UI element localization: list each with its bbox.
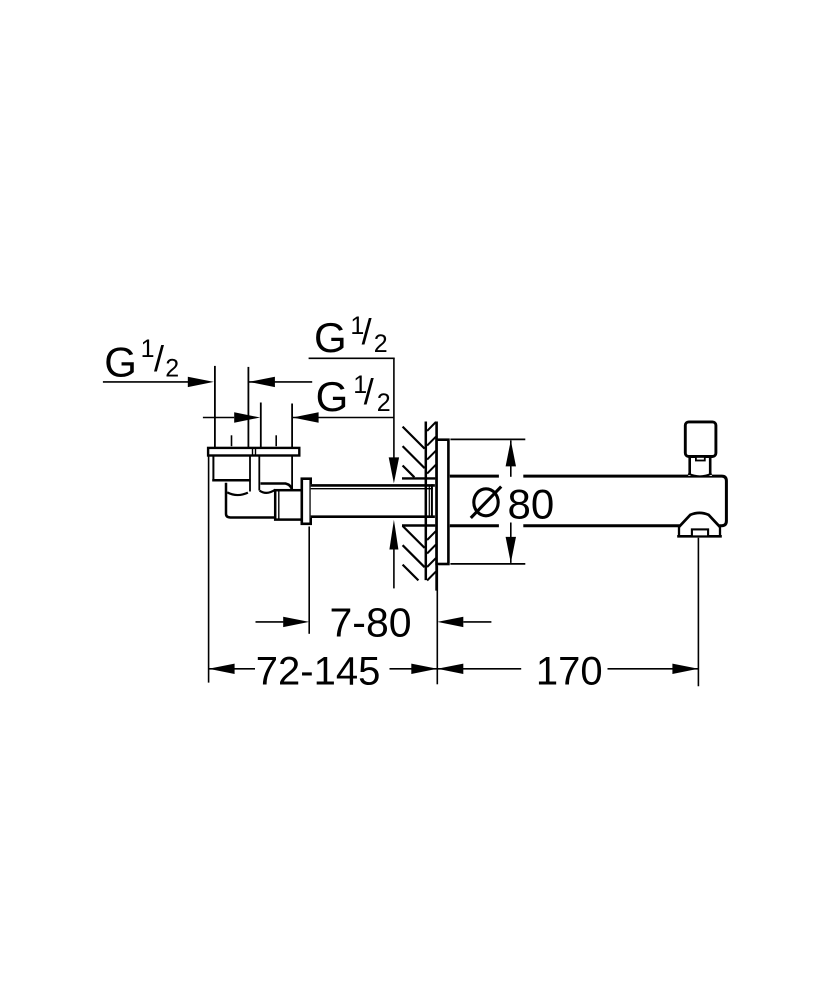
knob notch xyxy=(696,457,705,461)
diverter knob xyxy=(685,422,716,457)
extension line wall shared xyxy=(436,566,438,684)
dia80 dim line lower with down arrow xyxy=(510,523,512,563)
union nut on outlet xyxy=(275,490,302,519)
escutcheon ring (side view) xyxy=(437,440,449,564)
wall hole bottom edge xyxy=(402,524,435,526)
centerline tick pipe1 xyxy=(231,435,233,446)
svg-text:G: G xyxy=(316,373,349,420)
wall hatching lower block xyxy=(403,526,425,581)
svg-text:G: G xyxy=(104,339,137,386)
leader line under G1/2 top-left xyxy=(103,381,189,383)
dim line with right arrow at pipe2 left wall xyxy=(203,417,234,419)
svg-text:/: / xyxy=(364,371,374,412)
collar flange xyxy=(302,479,311,524)
wall chevrons lower block xyxy=(427,531,436,580)
aerator dome erase xyxy=(680,523,720,530)
svg-text:1: 1 xyxy=(141,335,155,363)
wall hatching upper block xyxy=(403,427,425,478)
svg-text:2: 2 xyxy=(165,355,179,383)
elbow flange plate xyxy=(208,448,299,456)
arrow down onto pipe top xyxy=(389,457,399,483)
stem base ellipse xyxy=(688,474,712,477)
leader vertical down to pipe xyxy=(393,358,395,461)
aerator outlet notch xyxy=(692,529,708,536)
svg-text:80: 80 xyxy=(508,480,555,527)
arrow left at pipe1 right wall with tail xyxy=(249,381,312,383)
diverter knob stem xyxy=(688,457,711,477)
elbow body cast contour right xyxy=(260,490,276,493)
svg-text:G: G xyxy=(314,314,347,361)
svg-text:/: / xyxy=(362,311,372,352)
extension line left (flange) xyxy=(208,456,210,683)
svg-text:170: 170 xyxy=(536,650,603,694)
label G1/2 top-center xyxy=(314,311,388,361)
aerator dome xyxy=(679,513,721,535)
svg-text:2: 2 xyxy=(377,389,391,417)
dia80 extension line top xyxy=(450,438,525,440)
dim 170 line xyxy=(437,668,521,670)
elbow horizontal cylinder xyxy=(226,483,276,518)
dim 7-80 left arrow xyxy=(256,621,284,623)
pipe 1 walls xyxy=(214,366,216,448)
middle bar (vertical pipe between cups) xyxy=(249,456,251,492)
wall chevrons upper block xyxy=(427,422,436,474)
dia80 extension line bottom xyxy=(450,563,525,565)
svg-text:72-145: 72-145 xyxy=(256,649,381,693)
dim 7-80 right arrow xyxy=(463,621,491,623)
dim 72-145 line xyxy=(209,668,255,670)
telescopic pipe xyxy=(311,484,435,518)
arrow right at pipe1 left wall xyxy=(188,377,214,387)
extension line collar xyxy=(308,527,310,634)
extension line aerator xyxy=(697,538,699,686)
svg-text:2: 2 xyxy=(374,330,388,358)
aerator collar xyxy=(678,526,680,535)
right union cup xyxy=(261,484,293,490)
left union cup xyxy=(212,456,214,480)
label G1/2 top-left xyxy=(104,335,179,386)
halo break bottom xyxy=(499,522,523,531)
svg-text:7-80: 7-80 xyxy=(330,600,412,646)
dia80 text xyxy=(474,489,498,516)
pipe end edge xyxy=(431,484,433,518)
spout body xyxy=(450,476,727,526)
arrow up onto pipe bottom with tail xyxy=(389,520,398,550)
halo break top xyxy=(499,472,523,480)
wall hole top edge xyxy=(402,477,435,479)
dim line with left arrow at pipe2 right wall xyxy=(293,417,394,419)
elbow body cast contour left xyxy=(227,492,248,495)
wall finished surface line xyxy=(435,422,438,591)
svg-text:/: / xyxy=(154,338,164,379)
flange split ticks xyxy=(252,448,254,456)
dia80 dim line upper with up arrow xyxy=(510,440,512,476)
wall rough surface line xyxy=(425,422,428,581)
pipe end inner thin edge xyxy=(428,486,430,516)
pipe 2 walls xyxy=(260,403,262,448)
label G1/2 middle xyxy=(316,371,391,420)
leader underline G1/2 top-center xyxy=(309,357,395,359)
centerline tick pipe2 xyxy=(275,435,277,446)
